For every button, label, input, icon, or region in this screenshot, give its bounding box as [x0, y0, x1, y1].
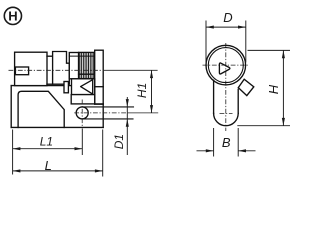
- body left edge: [10, 86, 12, 128]
- triangle spindle socket: [219, 63, 230, 74]
- arrow B left (points right): [206, 149, 214, 152]
- centerlines: [9, 43, 249, 131]
- bracket ledge to front face: [95, 103, 104, 105]
- bezel inner circle: [208, 48, 243, 83]
- arrowheads: [13, 26, 285, 173]
- arrow H1 bottom: [150, 105, 153, 113]
- triangle socket box: [72, 79, 95, 95]
- right view horizontal centerline: [203, 64, 249, 66]
- rear housing box: [15, 52, 47, 85]
- thread crest line: [69, 55, 94, 57]
- nut block (notched): [53, 52, 70, 85]
- hole horizontal centerline: [74, 112, 128, 114]
- dim L1 extension right: [81, 129, 83, 156]
- dim B line left segment: [197, 150, 214, 152]
- pin bottom tangent line: [82, 118, 133, 120]
- stem arc centerline dash: [220, 112, 233, 114]
- dim D extension right: [245, 21, 247, 63]
- dim B line right segment: [238, 150, 255, 152]
- svg-text:B: B: [222, 135, 231, 150]
- thread lines: [80, 53, 94, 78]
- arrow H top: [282, 50, 285, 58]
- right view vertical centerline: [225, 43, 227, 131]
- pin top tangent line: [82, 106, 133, 108]
- arrow D1 bottom (points up): [126, 119, 129, 127]
- screw slot: [15, 67, 28, 75]
- neck groove top line: [47, 55, 53, 57]
- svg-text:L1: L1: [40, 134, 53, 148]
- latch pin hole circle: [76, 107, 88, 119]
- clamp piece: [64, 82, 68, 93]
- arrow H1 top: [150, 70, 153, 78]
- dim L line: [13, 170, 103, 172]
- main axis extension (H1 top): [103, 69, 158, 71]
- step block: [69, 53, 78, 79]
- svg-text:H: H: [266, 84, 281, 94]
- svg-text:D: D: [223, 10, 232, 25]
- dim B extension left: [213, 128, 215, 157]
- triangle socket (side view): [81, 80, 93, 94]
- DIMENSIONS: [13, 21, 290, 177]
- dim B extension right: [237, 128, 239, 157]
- front bezel plate: [95, 50, 104, 104]
- arrow L1 left: [13, 147, 21, 150]
- connector line box to plate: [95, 86, 104, 88]
- svg-text:L: L: [45, 158, 52, 173]
- dim H line: [282, 50, 284, 125]
- arrow L left: [13, 169, 21, 172]
- threaded cylinder: [79, 52, 95, 78]
- dim H top extension: [248, 49, 291, 51]
- dim D line: [206, 26, 246, 28]
- bezel outer circle: [206, 45, 246, 85]
- stem rounded bottom: [214, 113, 239, 125]
- front face edge down to base: [102, 104, 104, 127]
- arrow B right (points left): [238, 149, 246, 152]
- arrow L right: [95, 169, 103, 172]
- stem left edge: [213, 80, 215, 113]
- body top edge: [11, 85, 71, 87]
- dim H bottom extension: [237, 125, 290, 127]
- arrow H bottom: [282, 118, 285, 126]
- svg-text:H: H: [8, 9, 17, 24]
- RIGHT VIEW: [206, 45, 254, 125]
- svg-text:H1: H1: [135, 83, 149, 98]
- dim L extension right: [102, 130, 104, 177]
- arrow D1 top (points down): [126, 99, 129, 107]
- view marker H circle: [4, 7, 21, 24]
- stem right edge: [237, 89, 239, 113]
- dim D extension left: [205, 21, 207, 63]
- svg-text:D1: D1: [112, 134, 126, 149]
- body bottom edge: [11, 126, 103, 128]
- arrow D left: [206, 26, 214, 29]
- neck groove bottom line: [47, 83, 53, 85]
- dim D1 line: [126, 97, 128, 155]
- hole centerline extension (H1 bottom): [128, 112, 158, 114]
- main axis centerline: [9, 69, 104, 71]
- thread root line: [79, 73, 95, 75]
- locating tab (rotated square): [238, 79, 254, 95]
- dim L1 line: [13, 148, 83, 150]
- arrow D right: [238, 26, 246, 29]
- sub bracket box: [71, 95, 95, 104]
- dim H1 line: [151, 70, 153, 113]
- body inner contour (cam recess): [18, 91, 64, 127]
- arrow L1 right: [75, 147, 83, 150]
- dimension labels: [40, 10, 281, 173]
- hole vertical centerline: [81, 100, 83, 127]
- dim L1 extension left: [12, 130, 14, 175]
